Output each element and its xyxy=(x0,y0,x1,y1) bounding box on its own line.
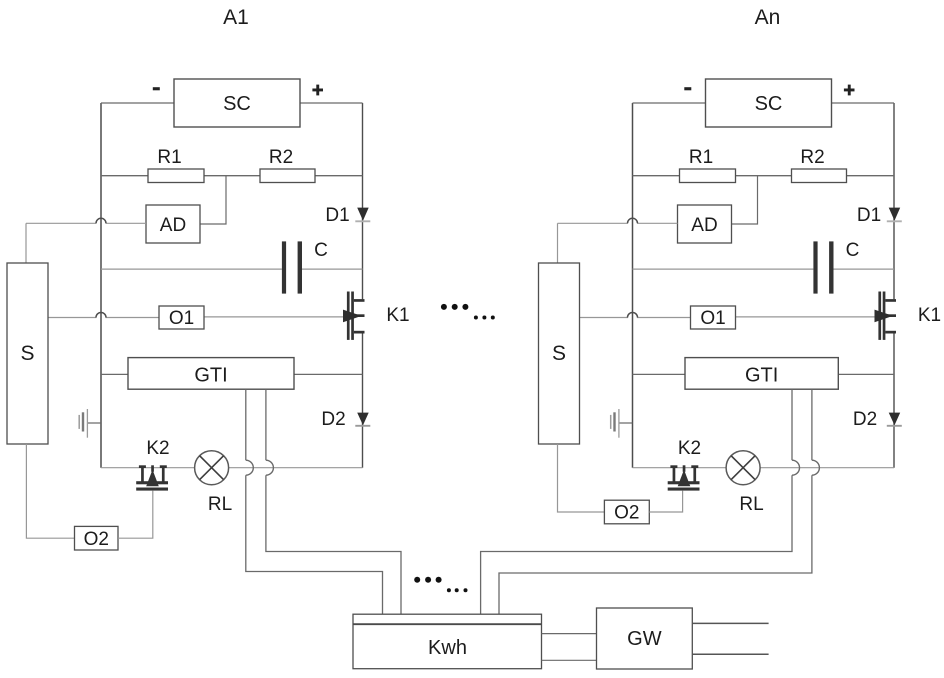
wire: An R1 left lead xyxy=(633,175,680,177)
wire: An C left lead xyxy=(633,268,814,270)
sampling unit AD (A1) xyxy=(146,205,200,243)
ellipsis dots between modules (bold) xyxy=(441,304,447,310)
wire hop over A1 left bus (AD wire) xyxy=(96,218,106,223)
svg-text:D1: D1 xyxy=(857,205,881,226)
wire hop An GTI output 2 over RL wire xyxy=(812,460,820,475)
wire: A1 S bottom to O2 xyxy=(26,444,74,538)
svg-text:O1: O1 xyxy=(700,308,725,329)
solar panel S (A1) xyxy=(7,263,48,444)
svg-text:R2: R2 xyxy=(800,147,824,168)
switch transistor K1 (A1) xyxy=(347,292,350,340)
svg-text:K2: K2 xyxy=(678,438,701,459)
polarity label + (A1 SC) xyxy=(312,89,323,92)
wire hop A1 GTI output 2 over RL wire xyxy=(266,460,274,475)
wire: A1 GTI right lead xyxy=(294,373,363,375)
svg-text:O1: O1 xyxy=(169,308,194,329)
svg-text:RL: RL xyxy=(208,494,232,515)
svg-text:AD: AD xyxy=(691,215,717,236)
wire: A1 left bus vertical xyxy=(100,103,102,468)
svg-text:RL: RL xyxy=(739,494,763,515)
wire: An GTI right lead xyxy=(838,373,894,375)
wire: An GTI output wire 1 xyxy=(791,389,793,460)
optocoupler O2 (An) xyxy=(604,500,649,524)
switch K2 (An) xyxy=(670,465,677,468)
svg-text:GTI: GTI xyxy=(745,365,778,387)
wire: An right bus vertical upper xyxy=(893,103,895,299)
svg-text:Kwh: Kwh xyxy=(428,637,467,659)
wire: Kwh to GW upper xyxy=(542,633,597,635)
wire: A1 R1/R2 junction to AD output xyxy=(200,176,226,224)
wire: A1 C left lead xyxy=(101,268,282,270)
ellipsis dots between modules (small) xyxy=(474,316,478,320)
ellipsis dots above Kwh (bold) xyxy=(414,577,420,583)
capacitor C (An) xyxy=(813,241,817,293)
optocoupler O2 (A1) xyxy=(75,526,119,550)
resistor R2 (An) xyxy=(792,169,847,183)
wire hop over An left bus (AD wire) xyxy=(628,218,638,223)
svg-text:SC: SC xyxy=(755,93,783,115)
wire: A1 S top to AD input xyxy=(25,223,27,263)
switch K2 (A1) xyxy=(139,465,146,468)
wire hop An GTI output 1 over RL wire xyxy=(792,460,800,475)
polarity label - (A1 SC) xyxy=(153,87,160,90)
optocoupler O1 (A1) xyxy=(159,306,204,329)
solar panel S (An) xyxy=(539,263,580,444)
diode D2 (An) xyxy=(889,413,901,426)
wire: An GTI output 2 routing to Kwh xyxy=(499,475,812,614)
svg-text:D2: D2 xyxy=(321,409,345,430)
wire: An RL lamp wire xyxy=(633,467,727,469)
svg-text:O2: O2 xyxy=(84,529,109,550)
svg-text:GW: GW xyxy=(627,628,662,650)
wire hop over A1 left bus (O1 wire) xyxy=(96,313,106,318)
resistor R1 (An) xyxy=(680,169,736,183)
wire: A1 GTI output 2 routing to Kwh xyxy=(266,475,401,614)
wire: GW output lower xyxy=(692,653,768,655)
capacitor C (A1) xyxy=(282,241,286,293)
wire: An C right lead xyxy=(834,268,895,270)
svg-text:An: An xyxy=(755,6,781,29)
resistor R2 (A1) xyxy=(260,169,315,183)
svg-text:D2: D2 xyxy=(853,409,877,430)
sampling unit AD (An) xyxy=(678,205,732,243)
wire: An R1/R2 junction to AD output xyxy=(732,176,758,224)
gateway GW xyxy=(597,608,693,669)
wire: An R1-R2 link xyxy=(736,175,792,177)
wire: A1 S to O1 xyxy=(48,317,96,319)
grid-tie inverter GTI (A1) xyxy=(128,358,294,390)
svg-text:R2: R2 xyxy=(269,147,293,168)
wire: A1 GTI output wire 2 xyxy=(265,389,267,460)
resistor R1 (A1) xyxy=(148,169,204,183)
supercapacitor SC (A1) xyxy=(174,79,300,127)
supercapacitor SC (An) xyxy=(706,79,832,127)
svg-text:AD: AD xyxy=(160,215,186,236)
wire: A1 R1 left lead xyxy=(101,175,148,177)
wire: A1 O1 to K1 gate xyxy=(204,316,344,318)
wire: A1 RL lamp wire xyxy=(101,467,195,469)
svg-text:S: S xyxy=(20,342,34,365)
energy meter Kwh xyxy=(353,614,542,669)
wire: A1 GTI output 1 routing to Kwh xyxy=(246,475,383,614)
optocoupler O1 (An) xyxy=(691,306,736,329)
wire: An SC right lead xyxy=(832,102,895,104)
wire hop A1 GTI output 1 over RL wire xyxy=(246,460,254,475)
svg-text:C: C xyxy=(314,240,328,261)
wire: An O2 to K2 xyxy=(649,491,682,512)
svg-text:C: C xyxy=(846,240,860,261)
wire: An S bottom to O2 xyxy=(558,444,605,512)
wire: Kwh to GW lower xyxy=(542,659,597,661)
svg-text:K2: K2 xyxy=(146,438,169,459)
polarity label - (An SC) xyxy=(684,87,691,90)
wire: A1 SC right lead xyxy=(300,102,363,104)
grid-tie inverter GTI (An) xyxy=(685,358,838,390)
wire: A1 O2 to K2 xyxy=(118,491,153,539)
wire: An SC left lead xyxy=(633,102,706,104)
wire: An O1 to K1 gate xyxy=(736,316,876,318)
wire: A1 GTI output wire 1 xyxy=(245,389,247,460)
ground (A1) xyxy=(87,422,101,424)
svg-text:R1: R1 xyxy=(689,147,713,168)
wire: A1 R1-R2 link xyxy=(204,175,260,177)
svg-text:SC: SC xyxy=(223,93,251,115)
svg-text:R1: R1 xyxy=(157,147,181,168)
ground (An) xyxy=(619,422,633,424)
svg-text:A1: A1 xyxy=(223,6,249,29)
wire: GW output upper xyxy=(692,622,768,624)
wire hop over An left bus (O1 wire) xyxy=(628,313,638,318)
wire: An S to O1 xyxy=(580,317,628,319)
polarity label + (An SC) xyxy=(844,89,855,92)
wire: An GTI output 1 routing to Kwh xyxy=(481,475,792,614)
svg-text:D1: D1 xyxy=(325,205,349,226)
svg-text:S: S xyxy=(552,342,566,365)
diode D1 (A1) xyxy=(357,208,369,221)
wire: A1 R2 right lead xyxy=(315,175,363,177)
diode D2 (A1) xyxy=(357,413,369,426)
lamp RL (An) xyxy=(726,451,760,485)
svg-text:GTI: GTI xyxy=(194,365,227,387)
wire: A1 C right lead xyxy=(302,268,363,270)
ellipsis dots above Kwh (small) xyxy=(447,588,451,592)
wire: An right bus vertical lower xyxy=(893,334,895,468)
wire: A1 SC left lead xyxy=(101,102,174,104)
wire: An GTI left lead xyxy=(633,373,686,375)
wire: A1 right bus vertical upper xyxy=(362,103,364,299)
wire: An left bus vertical xyxy=(632,103,634,468)
svg-text:K1: K1 xyxy=(386,305,409,326)
svg-text:K1: K1 xyxy=(918,305,941,326)
wire: An R2 right lead xyxy=(847,175,895,177)
wire: An GTI output wire 2 xyxy=(811,389,813,460)
wire: A1 right bus vertical lower xyxy=(362,334,364,468)
lamp RL (A1) xyxy=(195,451,229,485)
diode D1 (An) xyxy=(889,208,901,221)
wire: A1 GTI left lead xyxy=(101,373,128,375)
switch transistor K1 (An) xyxy=(878,292,881,340)
wire: An S top to AD input xyxy=(557,223,559,263)
svg-text:O2: O2 xyxy=(614,503,639,524)
